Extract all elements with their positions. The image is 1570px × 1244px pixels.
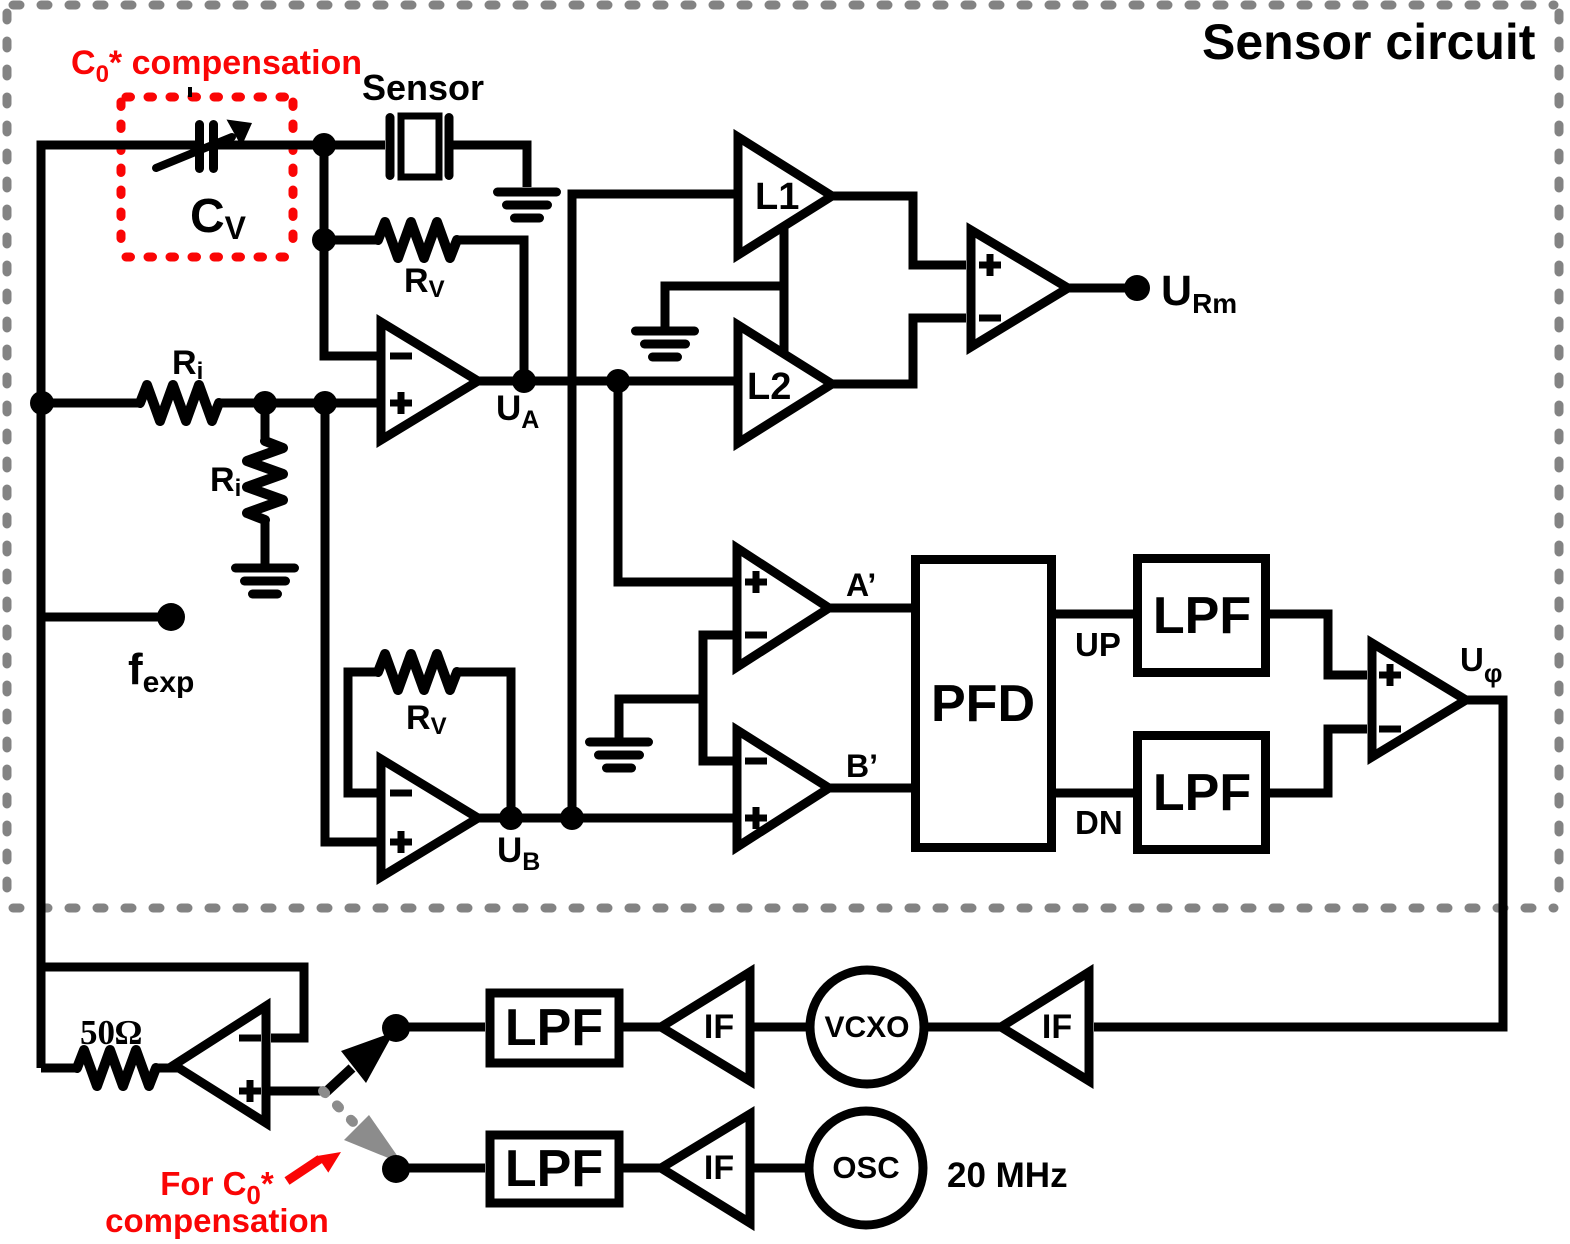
wire: node down to RV and UA minus input: [324, 145, 377, 356]
wire: mid ground stub: [665, 286, 784, 327]
comparator A-prime: [737, 548, 829, 667]
block LPF (UP): [1138, 559, 1266, 673]
svg-text:L1: L1: [755, 176, 799, 218]
svg-text:PFD: PFD: [931, 675, 1035, 733]
block LPF (OSC chain): [490, 1135, 619, 1203]
wire UP: [1056, 610, 1135, 619]
switch gray arm (alternate, dashed): [323, 1091, 356, 1125]
svg-text:L2: L2: [747, 366, 791, 408]
amplifier U_phi: [1372, 643, 1466, 757]
wire: ladder ground branch: [619, 699, 703, 738]
wire DN: [1056, 789, 1135, 798]
wire: UA line down to A-prime plus input: [618, 381, 736, 582]
wire: B-prime output to PFD: [829, 784, 911, 793]
svg-text:LPF: LPF: [1153, 764, 1251, 822]
wire: feedback loop top: [41, 967, 304, 1038]
svg-text:OSC: OSC: [832, 1150, 899, 1185]
wire: UB output to B plus: [478, 814, 736, 823]
amplifier IF (3): [661, 1114, 750, 1223]
wire: LPF to U_phi plus: [1269, 614, 1367, 675]
wire: L1 to comparator plus: [832, 196, 966, 265]
oscillator VCXO: [810, 970, 924, 1084]
comparator URm: [971, 230, 1068, 347]
op-amp UA: [381, 322, 478, 440]
svg-text:B’: B’: [846, 748, 878, 784]
wire: plus node down to UB plus input: [325, 403, 377, 842]
svg-text:LPF: LPF: [505, 999, 603, 1057]
svg-text:20 MHz: 20 MHz: [947, 1156, 1068, 1195]
svg-text:Sensor: Sensor: [362, 67, 484, 108]
svg-text:Sensor circuit: Sensor circuit: [1202, 14, 1536, 70]
resistor RV (top): [324, 236, 378, 245]
amplifier L2: [738, 325, 832, 443]
wire and terminal f_exp: [42, 613, 171, 622]
svg-text:IF: IF: [704, 1149, 734, 1187]
block PFD: [916, 560, 1052, 848]
sensor circuit dashed boundary box: [7, 5, 1559, 908]
op-amp (50ohm buffer, points left): [174, 1006, 266, 1123]
oscillator OSC: [809, 1111, 923, 1225]
svg-text:compensation: compensation: [105, 1202, 329, 1239]
ground (Ri): [236, 568, 295, 594]
wire: CV right plate to crystal node: [218, 141, 385, 150]
wire: switch to LPF: [408, 1023, 485, 1032]
svg-text:LPF: LPF: [505, 1140, 603, 1198]
svg-text:IF: IF: [704, 1008, 734, 1046]
svg-text:A’: A’: [846, 567, 876, 603]
wire: L1-L2 connector: [780, 228, 789, 352]
capacitor CV (variable): [156, 120, 252, 169]
comparator B-prime: [737, 730, 829, 847]
resistor Ri (vertical): [261, 403, 270, 441]
op-amp UB: [381, 759, 478, 877]
wire: left bus from top node down to 50ohm: [41, 145, 195, 1068]
wire: A-B minus ladder: [703, 635, 736, 761]
ground (ladder): [590, 742, 649, 768]
resistor Ri (horizontal): [140, 385, 219, 421]
junction RV tap: [312, 228, 336, 252]
red arrow: [287, 1159, 320, 1181]
wire: A-prime output to PFD: [829, 604, 911, 613]
wire: L2 to comparator minus: [832, 318, 966, 384]
leader tick: [188, 87, 192, 97]
amplifier IF (2): [1001, 972, 1089, 1081]
block LPF (DN): [1138, 736, 1266, 850]
switch black arm (selected): [326, 1068, 352, 1092]
ground (L1/L2): [636, 331, 695, 357]
wire and terminal URm: [1068, 284, 1125, 293]
wire: plus stub to switch pivot: [266, 1087, 327, 1096]
amplifier L1: [738, 137, 832, 255]
svg-text:UP: UP: [1075, 626, 1121, 663]
wire: UA output: [478, 377, 737, 386]
wire: LPF to U_phi minus: [1269, 729, 1367, 793]
ground (crystal): [498, 192, 557, 218]
wire: switch lower to LPF: [408, 1164, 485, 1173]
junction node CV/crystal: [312, 133, 336, 157]
resistor RV (bottom feedback): [348, 672, 378, 793]
red dashed box around CV: [121, 97, 293, 257]
wire: U_phi output down to IF chain: [1094, 700, 1503, 1027]
wire: crystal to ground: [453, 145, 527, 187]
amplifier IF (1): [661, 972, 750, 1081]
svg-text:50Ω: 50Ω: [80, 1013, 142, 1052]
svg-text:IF: IF: [1042, 1008, 1072, 1046]
svg-text:VCXO: VCXO: [824, 1011, 909, 1044]
svg-text:LPF: LPF: [1153, 587, 1251, 645]
crystal sensor symbol: [390, 116, 449, 177]
svg-text:C0* compensation: C0* compensation: [71, 44, 362, 88]
wire: UB line up to L1 input: [572, 194, 737, 818]
resistor 50ohm: [41, 1064, 77, 1073]
svg-text:DN: DN: [1075, 804, 1123, 841]
wire: plus input line with Ri: [42, 399, 140, 408]
block LPF (VCXO chain): [490, 993, 619, 1063]
